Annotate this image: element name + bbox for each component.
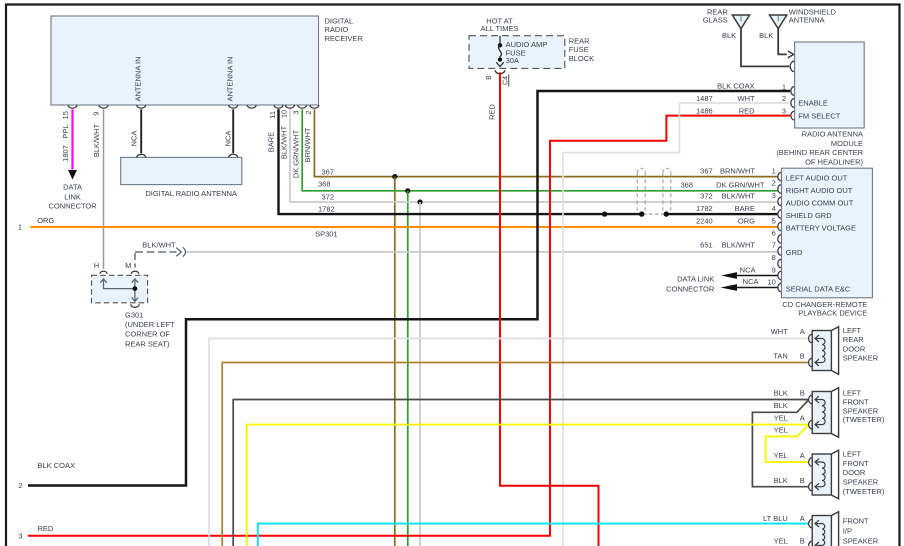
node M [131,271,138,274]
wire BLK/WHT pin9 to H [103,109,105,268]
svg-text:(TWEETER): (TWEETER) [843,487,885,496]
svg-text:OF HEADLINER): OF HEADLINER) [805,158,863,167]
svg-text:BRN/WHT: BRN/WHT [303,127,312,162]
svg-text:(TWEETER): (TWEETER) [843,415,885,424]
wire 651 BLK/WHT [187,251,778,253]
svg-text:DOOR: DOOR [843,344,866,353]
svg-text:NCA: NCA [130,131,139,147]
ground G301 box [92,275,148,303]
module pin 2 ENABLE [791,99,794,108]
svg-text:2: 2 [304,110,313,114]
svg-text:LEFT: LEFT [843,389,862,398]
svg-text:1782: 1782 [318,204,335,213]
svg-text:4: 4 [772,204,776,213]
svg-text:RED: RED [739,107,755,116]
fuse block connector pin B C4 [495,70,505,73]
svg-text:DIGITAL: DIGITAL [325,16,354,25]
inline connector on 651 [176,248,181,257]
digital radio receiver U1 box [51,16,319,105]
wire YEL tweeter to door tweeter [766,425,809,462]
wire 1 ORG SP301 [30,226,777,228]
CD changer pin 4 [778,210,781,218]
CD changer pin 5 [778,222,781,230]
CD changer pin 8 [778,259,781,267]
fuse AUDIO AMP FUSE 30A [499,36,501,44]
svg-text:YEL: YEL [774,414,788,423]
svg-text:PLAYBACK DEVICE: PLAYBACK DEVICE [798,309,867,318]
svg-text:1487: 1487 [696,94,713,103]
svg-text:3: 3 [782,107,786,116]
wire 2 BLK COAX [28,91,790,486]
svg-text:RED: RED [38,524,54,533]
speaker left rear door [831,327,838,375]
wire WHT to left rear door speaker [209,339,808,546]
CD changer pin 9 [778,271,781,279]
svg-text:10: 10 [279,110,288,118]
svg-text:RED: RED [488,104,497,120]
speaker left front door tweeter [831,450,838,499]
wire PPL 1807 pin15 [71,109,73,169]
receiver pin 10 [286,105,295,108]
module pin 1 [791,87,794,96]
wire 367 BRN/WHT [314,109,777,176]
svg-text:ALL TIMES: ALL TIMES [481,24,519,33]
svg-text:3: 3 [18,531,22,540]
svg-text:BLK/WHT: BLK/WHT [92,123,101,157]
svg-text:10: 10 [767,278,775,287]
svg-text:WHT: WHT [738,94,755,103]
svg-text:ANTENNA: ANTENNA [789,16,825,25]
svg-text:3: 3 [772,191,776,200]
svg-text:1486: 1486 [696,107,713,116]
svg-text:DATA: DATA [63,182,82,191]
svg-text:DOOR: DOOR [843,468,866,477]
CD changer pin 6 [778,235,781,243]
svg-text:GRD: GRD [786,248,803,257]
svg-text:SP301: SP301 [315,229,338,238]
svg-text:RADIO ANTENNA: RADIO ANTENNA [802,130,863,139]
wire NCA pin 9 [736,275,777,277]
svg-text:MODULE: MODULE [831,139,863,148]
CD changer pin 1 [778,172,781,180]
receiver antenna pin 1 [137,105,146,108]
svg-text:ORG: ORG [738,216,755,225]
svg-text:RECEIVER: RECEIVER [325,34,364,43]
radio antenna module box [795,42,865,128]
speaker left front tweeter [831,388,838,438]
svg-text:372: 372 [322,193,335,202]
svg-text:BLK: BLK [774,401,788,410]
svg-text:2240: 2240 [696,216,713,225]
wire 368 branch down [407,191,409,546]
svg-text:ENABLE: ENABLE [798,99,828,108]
svg-text:(BEHIND REAR CENTER: (BEHIND REAR CENTER [776,148,863,157]
CD changer pin 3 [778,197,781,205]
wire BLK to left front tweeter [233,400,808,546]
svg-text:ANTENNA IN: ANTENNA IN [226,56,235,101]
svg-text:BLK COAX: BLK COAX [38,461,76,470]
node 1782 connector right [664,211,669,216]
svg-text:651: 651 [700,241,713,250]
wire 3 RED 1486 [28,116,790,536]
svg-text:GLASS: GLASS [703,16,728,25]
ground G301 internal wires [104,280,135,289]
wire 1487 WHT [563,103,790,546]
svg-text:1: 1 [18,223,22,232]
wire YEL to left front tweeter [247,425,808,546]
module antenna input pin [790,61,794,71]
svg-text:BLK COAX: BLK COAX [717,82,755,91]
svg-text:CD CHANGER-REMOTE: CD CHANGER-REMOTE [782,300,867,309]
svg-text:A: A [800,327,805,336]
svg-text:WHT: WHT [771,327,788,336]
wire BLK rear glass antenna [741,29,789,67]
svg-text:(UNDER LEFT: (UNDER LEFT [125,320,175,329]
svg-text:FRONT: FRONT [843,459,869,468]
svg-text:367: 367 [322,168,335,177]
svg-text:SPEAKER: SPEAKER [843,353,879,362]
svg-text:7: 7 [772,241,776,250]
svg-text:TAN: TAN [773,351,787,360]
svg-text:8: 8 [772,253,776,262]
svg-text:BLK/WHT: BLK/WHT [142,241,176,250]
wire NCA right [232,109,234,153]
svg-text:CORNER OF: CORNER OF [125,330,170,339]
svg-text:A: A [800,414,805,423]
wire 1782 BARE [279,109,642,214]
svg-text:9: 9 [772,266,776,275]
arrow to data link connector [68,170,77,180]
svg-text:BLK: BLK [722,31,736,40]
svg-text:LT BLU: LT BLU [763,514,788,523]
svg-text:BATTERY VOLTAGE: BATTERY VOLTAGE [786,224,856,233]
svg-text:BARE: BARE [266,132,275,152]
svg-text:B: B [800,536,805,545]
wire 1782 inside connector [643,213,665,215]
wire BLK windshield antenna [778,29,787,55]
svg-text:6: 6 [772,229,776,238]
svg-text:B: B [486,75,493,80]
speaker front I/P [831,512,838,546]
svg-text:BRN/WHT: BRN/WHT [720,166,755,175]
svg-text:9: 9 [92,112,101,116]
svg-text:11: 11 [268,111,277,119]
svg-text:30A: 30A [506,56,519,65]
CD changer pin 2 [778,185,781,193]
svg-text:BLOCK: BLOCK [569,54,594,63]
svg-text:NCA: NCA [743,277,759,286]
svg-text:A: A [800,514,805,523]
svg-text:NCA: NCA [223,131,232,147]
CD changer pin 10 [778,283,781,291]
svg-text:A: A [800,451,805,460]
wire RED from fuse [500,73,599,546]
node junction 372 [417,199,422,204]
wire NCA left [140,109,142,153]
svg-text:LEFT: LEFT [843,326,862,335]
svg-text:B: B [800,388,805,397]
wire LT BLU to front I/P speaker [258,524,808,546]
svg-text:ANTENNA IN: ANTENNA IN [134,56,143,101]
wire TAN to left rear door speaker [222,363,808,546]
svg-text:15: 15 [61,111,70,119]
svg-text:BARE: BARE [735,204,755,213]
wire NCA pin 10 [736,287,777,289]
svg-text:RADIO: RADIO [325,25,349,34]
svg-text:M: M [125,261,131,270]
svg-text:I/P: I/P [843,527,852,536]
connector C2 dashed pillars [636,172,638,210]
rear fuse block box [469,36,565,69]
wire BLK/WHT dashed from G301 M [135,251,177,253]
svg-text:367: 367 [700,166,713,175]
svg-text:368: 368 [680,180,693,189]
svg-text:NCA: NCA [740,265,756,274]
wire 367 branch down [394,177,396,546]
svg-text:REAR SEAT): REAR SEAT) [125,339,170,348]
receiver pin 3 [298,105,307,108]
svg-text:SERIAL DATA E&C: SERIAL DATA E&C [786,284,851,293]
svg-text:RIGHT AUDIO OUT: RIGHT AUDIO OUT [786,186,853,195]
svg-text:BLK: BLK [774,476,788,485]
svg-text:LINK: LINK [64,192,81,201]
svg-text:2: 2 [772,179,776,188]
svg-text:1: 1 [782,82,786,91]
node junction 368 [405,188,410,193]
CD changer pin 7 [778,247,781,255]
svg-text:B: B [800,476,805,485]
svg-text:1: 1 [772,166,776,175]
svg-text:BLK/WHT: BLK/WHT [279,125,288,159]
wire 368 DK GRN/WHT [302,109,777,191]
receiver pin 11 [274,105,283,108]
svg-text:5: 5 [772,216,776,225]
svg-text:368: 368 [318,179,331,188]
wire BLK tweeter to door tweeter [752,400,808,487]
svg-text:1807: 1807 [61,145,70,162]
svg-text:H: H [94,261,99,270]
svg-text:SPEAKER: SPEAKER [843,537,879,546]
svg-text:CONNECTOR: CONNECTOR [666,285,715,294]
svg-text:FM SELECT: FM SELECT [798,111,841,120]
receiver pin 2 [310,105,319,108]
receiver pin 9 [99,105,108,108]
svg-text:2: 2 [782,94,786,103]
svg-text:372: 372 [700,192,713,201]
svg-text:YEL: YEL [774,451,788,460]
svg-text:LEFT AUDIO OUT: LEFT AUDIO OUT [786,174,848,183]
antenna rear glass [732,15,749,29]
svg-text:SHIELD GRD: SHIELD GRD [786,211,832,220]
svg-text:BLK/WHT: BLK/WHT [722,192,756,201]
wire 372 branch down [419,202,421,546]
module pin 3 FM SELECT [791,111,794,120]
node H [100,271,107,274]
receiver unused pin [247,105,256,108]
wire 372 BLK/WHT [290,109,777,202]
svg-text:3: 3 [292,110,301,114]
svg-text:AUDIO COMM OUT: AUDIO COMM OUT [786,199,854,208]
svg-text:ORG: ORG [37,216,54,225]
svg-text:REAR: REAR [843,335,864,344]
svg-text:DK GRN/WHT: DK GRN/WHT [716,180,765,189]
antenna windshield [770,15,787,29]
svg-text:1782: 1782 [696,204,713,213]
svg-text:YEL: YEL [774,426,788,435]
svg-text:DATA LINK: DATA LINK [677,275,714,284]
svg-text:YEL: YEL [774,536,788,545]
svg-text:DK GRN/WHT: DK GRN/WHT [292,129,301,178]
node junction 367 [392,174,397,179]
node 1782 connector left [639,211,644,216]
node splice 1782 [602,211,607,216]
digital radio antenna box [121,157,242,184]
svg-text:LEFT: LEFT [843,450,862,459]
svg-text:BLK: BLK [774,388,788,397]
CD changer-remote playback device box [782,168,873,298]
receiver pin 15 [68,105,77,108]
svg-text:G301: G301 [125,311,143,320]
svg-text:B: B [800,351,805,360]
svg-text:CONNECTOR: CONNECTOR [48,201,97,210]
svg-text:BLK/WHT: BLK/WHT [722,241,756,250]
svg-text:PPL: PPL [61,124,70,138]
svg-text:BLK: BLK [759,31,773,40]
svg-text:DIGITAL RADIO ANTENNA: DIGITAL RADIO ANTENNA [145,189,237,198]
receiver antenna pin 2 [229,105,238,108]
svg-text:2: 2 [18,481,22,490]
svg-text:SPEAKER: SPEAKER [843,477,879,486]
svg-text:FRONT: FRONT [843,516,869,525]
svg-text:FRONT: FRONT [843,397,869,406]
svg-text:SPEAKER: SPEAKER [843,406,879,415]
